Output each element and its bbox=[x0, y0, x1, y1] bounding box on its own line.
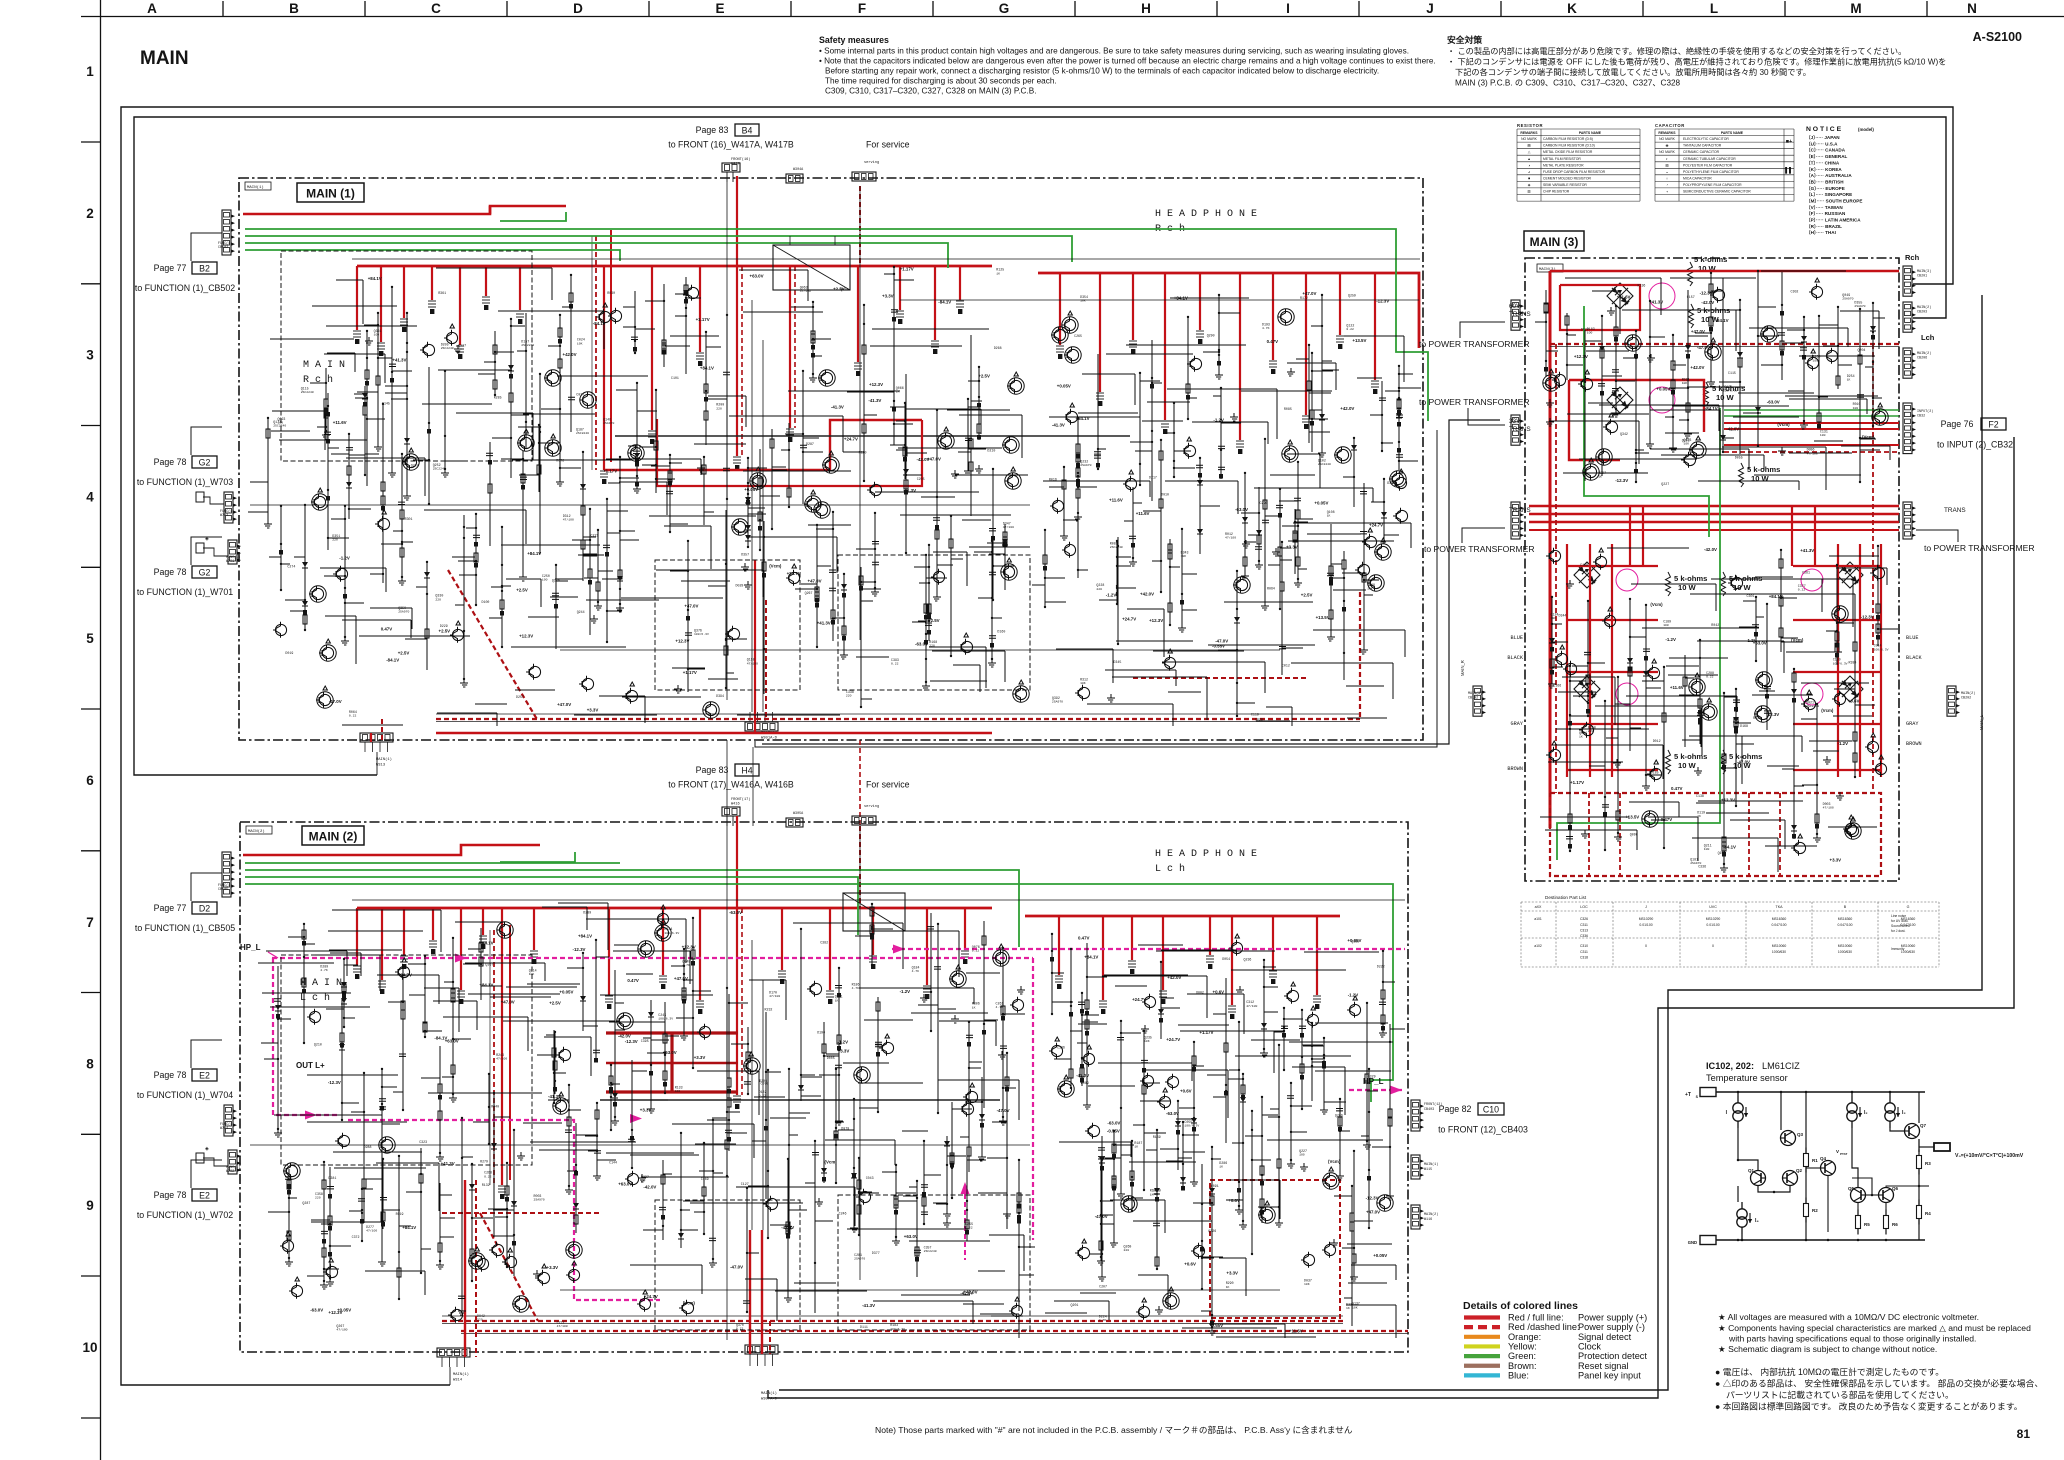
diode M1aD3 bbox=[685, 277, 687, 374]
red wires M2 right bus drops bbox=[1055, 916, 1321, 1019]
wire M3ah4 bbox=[1665, 432, 1699, 434]
svg-text:a102: a102 bbox=[1534, 944, 1542, 948]
svg-text:C138: C138 bbox=[1696, 794, 1704, 798]
wire M3bh22 bbox=[1548, 761, 1623, 763]
wire W301A-D stub bbox=[755, 430, 1437, 747]
capacitor M3bC8 bbox=[1699, 640, 1701, 744]
wire M2bh13 bbox=[1315, 1022, 1388, 1024]
green wire M2 entry jog bbox=[500, 852, 575, 862]
resistor M1b2R2 bbox=[1297, 462, 1299, 579]
svg-text:2: 2 bbox=[86, 206, 94, 221]
svg-text:to FRONT (17)_W416A, W416B: to FRONT (17)_W416A, W416B bbox=[668, 780, 794, 790]
svg-text:+11.6V: +11.6V bbox=[1136, 511, 1150, 516]
svg-text:CAPACITOR: CAPACITOR bbox=[1655, 123, 1685, 128]
red dashed interbox service bbox=[859, 740, 861, 826]
svg-text:C274: C274 bbox=[287, 564, 295, 568]
wire M2ah41 bbox=[328, 930, 423, 932]
svg-text:2SA970: 2SA970 bbox=[854, 1257, 865, 1261]
resistor M1a2R29 bbox=[863, 305, 865, 481]
svg-text:+84.1V: +84.1V bbox=[700, 365, 714, 370]
diode M2aD2 bbox=[853, 1099, 855, 1224]
resistor M2aR14 bbox=[916, 1181, 918, 1277]
svg-text:-12.3V: -12.3V bbox=[1366, 1195, 1379, 1200]
svg-text:MAIN(3): MAIN(3) bbox=[1468, 691, 1482, 696]
wire M3ah11 bbox=[1563, 472, 1648, 474]
svg-text:2SC2240: 2SC2240 bbox=[1318, 462, 1331, 466]
svg-text:Red /dashed line:: Red /dashed line: bbox=[1508, 1322, 1580, 1332]
svg-text:R2: R2 bbox=[1812, 1208, 1818, 1213]
resistor M1a2R2 bbox=[970, 335, 972, 516]
transistor M2aQ15 bbox=[326, 1266, 337, 1277]
wire temp vo link bbox=[1919, 1146, 1934, 1148]
magenta arrow up center bbox=[961, 1182, 970, 1194]
svg-text:+2.5V: +2.5V bbox=[439, 629, 451, 634]
svg-text:R019: R019 bbox=[396, 1212, 404, 1216]
transistor M3aQ14 bbox=[1606, 421, 1617, 432]
svg-text:MAIN_L: MAIN_L bbox=[1979, 714, 1984, 730]
wire M1bh22 bbox=[1162, 661, 1265, 663]
red wire M1 mid rail bbox=[604, 420, 922, 470]
wire M1bh15 bbox=[1254, 487, 1373, 489]
resistor M2aR5 bbox=[1018, 1160, 1020, 1311]
transistor M3bQ1 bbox=[1582, 724, 1593, 735]
resistor M3aR4 bbox=[1687, 290, 1689, 430]
red wire M2 tall pair b bbox=[509, 925, 511, 1180]
ground M1agnd2 bbox=[590, 615, 598, 623]
wire M2ah4 bbox=[468, 993, 560, 995]
red dashed M1 drop pair 1 bbox=[741, 266, 743, 456]
resistor M2a2R6 bbox=[424, 956, 426, 1037]
ground M2bgnd2 bbox=[1236, 986, 1244, 994]
svg-text:METAL OXIDE FILM RESISTOR: METAL OXIDE FILM RESISTOR bbox=[1543, 150, 1593, 154]
transistor M1bQ18 bbox=[1396, 510, 1407, 521]
transistor M3bQ7 bbox=[1845, 823, 1856, 834]
wire M1bh6 bbox=[1153, 650, 1244, 652]
svg-text:220: 220 bbox=[435, 597, 441, 601]
svg-text:Temperature sensor: Temperature sensor bbox=[1706, 1073, 1788, 1083]
capacitor M2bC2 bbox=[1120, 1021, 1122, 1190]
red wire M3 CB32 feed2 bbox=[1724, 428, 1899, 430]
svg-text:D377: D377 bbox=[872, 1251, 880, 1255]
transistor M2aQ11 bbox=[492, 1244, 503, 1255]
svg-text:LM61CIZ: LM61CIZ bbox=[1762, 1061, 1800, 1071]
capacitor M1aC13 bbox=[555, 565, 557, 649]
transistor M3aQ10 bbox=[1545, 377, 1556, 388]
transistor Q1 bbox=[1751, 1171, 1766, 1186]
svg-text:0.22: 0.22 bbox=[484, 1174, 492, 1178]
resistor M1bR8 bbox=[1063, 467, 1065, 532]
wire M3bh21 bbox=[1786, 651, 1842, 653]
svg-text:E: E bbox=[715, 1, 724, 16]
svg-text:-41.3V: -41.3V bbox=[862, 1303, 875, 1308]
green wire M1 g3 bbox=[245, 243, 948, 268]
transistor M1aQ27 bbox=[322, 647, 333, 658]
value labels M3b designators bbox=[1551, 563, 1889, 869]
svg-text:+84.1V: +84.1V bbox=[527, 551, 541, 556]
ground M2agnd4 bbox=[533, 1270, 541, 1278]
svg-text:D012: D012 bbox=[1653, 739, 1661, 743]
wire M3bh30 bbox=[1737, 578, 1853, 580]
svg-text:1K: 1K bbox=[1847, 378, 1851, 382]
reference to FUNCTION(1) W702 bbox=[137, 1160, 233, 1220]
svg-text:Protection detect: Protection detect bbox=[1578, 1351, 1647, 1361]
resistor M2aR7 bbox=[835, 1069, 837, 1183]
wire M3bh13 bbox=[1648, 816, 1698, 818]
capacitor M1a2C10 bbox=[687, 541, 689, 692]
svg-text:-1.2V: -1.2V bbox=[1838, 741, 1849, 746]
red dashed M2 diagonal bbox=[480, 1213, 538, 1321]
transistor M2aQ14 bbox=[282, 1240, 293, 1251]
svg-text:-0.55V: -0.55V bbox=[1210, 1323, 1223, 1328]
svg-text:CB502: CB502 bbox=[218, 246, 228, 250]
wire M3ah7 bbox=[1761, 270, 1846, 272]
svg-text:1K: 1K bbox=[972, 1005, 976, 1009]
svg-text:R042: R042 bbox=[1711, 623, 1719, 627]
wire temp out node bbox=[1918, 1168, 1920, 1206]
svg-text:+0.6V: +0.6V bbox=[1228, 1198, 1240, 1203]
wire M2ah66 bbox=[443, 1016, 528, 1018]
svg-text:1K: 1K bbox=[1346, 1306, 1350, 1310]
resistor 5k R2 bbox=[1689, 304, 1694, 328]
wire M1ah69 bbox=[664, 525, 711, 527]
svg-text:M A I N: M A I N bbox=[303, 360, 345, 371]
red wire M2 W314 feed bbox=[464, 1180, 466, 1357]
red wire M1 W417 feed bbox=[736, 176, 738, 266]
ground M1bgnd3 bbox=[1287, 368, 1295, 376]
relay circle RY5 bbox=[1616, 683, 1638, 705]
diode M2a2D6 bbox=[800, 929, 802, 1101]
red dashed M1 bottom bus bbox=[436, 721, 1360, 723]
wire stub W703 bbox=[203, 497, 224, 504]
pcb tag MAIN(2) bbox=[246, 826, 272, 834]
svg-text:R040: R040 bbox=[491, 1104, 499, 1108]
resistor M1aR16 bbox=[725, 510, 727, 688]
svg-text:+84.1V: +84.1V bbox=[402, 1225, 416, 1230]
wire M1bh32 bbox=[1049, 416, 1140, 418]
svg-text:POLYESTER FILM CAPACITOR: POLYESTER FILM CAPACITOR bbox=[1683, 163, 1733, 167]
resistor M1bR6 bbox=[1363, 483, 1365, 646]
resistor M1aR24 bbox=[936, 410, 938, 593]
wire M3bh24 bbox=[1668, 674, 1718, 676]
diode M1aD8 bbox=[747, 458, 749, 537]
wire M1b2col15 bbox=[1139, 373, 1141, 485]
svg-text:C318: C318 bbox=[1580, 955, 1588, 959]
ground M3bgnd4 bbox=[1836, 792, 1844, 800]
wire M2ah34 bbox=[770, 1117, 806, 1119]
svg-text:Q236: Q236 bbox=[1244, 957, 1252, 961]
svg-text:C101: C101 bbox=[671, 376, 679, 380]
wire M1bh35 bbox=[1208, 644, 1315, 646]
resistor M2a2R14 bbox=[703, 1143, 705, 1234]
wire stub W702 bbox=[203, 1158, 228, 1166]
terminal +Ts bbox=[1700, 1088, 1716, 1097]
transistor M1bQ7 bbox=[1280, 311, 1291, 322]
svg-text:(Vcm): (Vcm) bbox=[1821, 708, 1834, 713]
wire temp diff pair bbox=[1738, 1128, 1758, 1170]
connector FUNC(1) W701 bbox=[228, 540, 237, 564]
resistor M1aR5 bbox=[860, 567, 862, 707]
svg-text:4.7K: 4.7K bbox=[912, 969, 920, 973]
magenta wire HP_L mid drop bbox=[1032, 958, 1034, 1240]
resistor M2bR5 bbox=[1211, 1147, 1213, 1327]
value labels M2a designators bbox=[302, 911, 1003, 1332]
svg-text:Green:: Green: bbox=[1508, 1351, 1536, 1361]
svg-text:47/100: 47/100 bbox=[747, 661, 758, 665]
transistor M2aQ8 bbox=[499, 924, 510, 935]
svg-text:Q5: Q5 bbox=[1848, 1186, 1855, 1191]
svg-text:100/6.3V: 100/6.3V bbox=[890, 1327, 905, 1331]
red dashed M1 right seg bbox=[1133, 677, 1306, 679]
wire M2bh4 bbox=[1140, 1100, 1170, 1102]
wire M3ah34 bbox=[1586, 350, 1629, 352]
svg-text:TRANS: TRANS bbox=[1509, 426, 1531, 433]
reference to FRONT(12) CB403 bbox=[1438, 1103, 1528, 1135]
capacitor M2aC11 bbox=[746, 1188, 748, 1312]
svg-text:47/100: 47/100 bbox=[563, 518, 574, 522]
wire M2ah3 bbox=[270, 1006, 370, 1008]
wire M1bh24 bbox=[1087, 703, 1173, 705]
black companion M2 bottom bus bbox=[442, 1315, 1343, 1317]
wire M3bh32 bbox=[1692, 837, 1778, 839]
reference to FUNCTION(1) W703 bbox=[137, 427, 233, 487]
svg-text:W314: W314 bbox=[453, 1379, 463, 1383]
svg-text:Before starting any repair wor: Before starting any repair work, connect… bbox=[825, 67, 1379, 76]
transistor M1bQ13 bbox=[1066, 411, 1077, 422]
svg-text:Page 78: Page 78 bbox=[154, 1070, 187, 1080]
wire M2ah14 bbox=[544, 1036, 591, 1038]
wire M1ah57 bbox=[900, 514, 1011, 516]
wire M3acol2 bbox=[1635, 331, 1637, 482]
svg-text:10 W: 10 W bbox=[1678, 761, 1697, 770]
svg-text:+24.7V: +24.7V bbox=[1132, 997, 1146, 1002]
red wire M1 entry bus bbox=[243, 206, 566, 214]
ground M3bgnd1 bbox=[1694, 767, 1702, 775]
svg-text:47/100: 47/100 bbox=[1003, 525, 1014, 529]
svg-text:2SA970: 2SA970 bbox=[1854, 304, 1865, 308]
transistor M3aQ6 bbox=[1811, 286, 1822, 297]
svg-text:E2: E2 bbox=[199, 1071, 210, 1081]
transistor M1aQ7 bbox=[452, 629, 463, 640]
red dashed M2 tall pair a bbox=[493, 930, 495, 1185]
svg-text:C326: C326 bbox=[1580, 917, 1588, 921]
svg-text:■: ■ bbox=[1528, 176, 1530, 180]
transistor M2aQ37 bbox=[699, 1026, 710, 1037]
green wire M3 g1 bbox=[1584, 306, 1709, 537]
svg-text:C119: C119 bbox=[1251, 713, 1259, 717]
svg-text:2SC2240: 2SC2240 bbox=[273, 424, 286, 428]
wire M3bh43 bbox=[1540, 816, 1629, 818]
svg-text:C157: C157 bbox=[1687, 295, 1695, 299]
wire M1ah15 bbox=[729, 415, 843, 417]
resistor M2a2R15 bbox=[363, 1073, 365, 1223]
wire M1a2col13 bbox=[525, 313, 527, 449]
wire M2ah35 bbox=[329, 949, 402, 951]
svg-text:10K: 10K bbox=[1080, 681, 1086, 685]
svg-text:MS10290: MS10290 bbox=[1639, 917, 1654, 921]
resistor M1aR20 bbox=[763, 521, 765, 694]
diode M3bD6 bbox=[1793, 669, 1795, 839]
svg-text:10K: 10K bbox=[1352, 1305, 1358, 1309]
svg-text:2SA970: 2SA970 bbox=[1842, 297, 1853, 301]
svg-text:+3.3V: +3.3V bbox=[1226, 1271, 1238, 1276]
svg-text:47/100: 47/100 bbox=[800, 289, 811, 293]
svg-text:A-S2100: A-S2100 bbox=[1973, 30, 2022, 44]
resistor M3aR9 bbox=[1781, 272, 1783, 380]
resistor 5k R7 bbox=[1666, 750, 1671, 774]
transistor M1bQ22 bbox=[1190, 358, 1201, 369]
svg-text:Brown:: Brown: bbox=[1508, 1361, 1537, 1371]
resistor M3bR9 bbox=[1587, 601, 1589, 716]
svg-text:LOC: LOC bbox=[1580, 905, 1588, 909]
connector FUNC(1) W702 bbox=[228, 1150, 237, 1174]
svg-text:-1.2V: -1.2V bbox=[900, 989, 911, 994]
wire M3bh44 bbox=[1756, 593, 1855, 595]
svg-text:to POWER TRANSFORMER: to POWER TRANSFORMER bbox=[1419, 339, 1530, 349]
wire M1ah10 bbox=[327, 352, 355, 354]
capacitor M1b2C4 bbox=[1264, 439, 1266, 602]
resistor M1aR28 bbox=[832, 512, 834, 641]
wire loop D (MAIN3 right return to W307A-D) bbox=[779, 295, 1982, 1390]
wire M1ah22 bbox=[619, 481, 667, 483]
svg-text:CHIP RESISTOR: CHIP RESISTOR bbox=[1543, 190, 1570, 194]
svg-text:100/6.3V: 100/6.3V bbox=[1184, 1123, 1199, 1127]
svg-text:0.22: 0.22 bbox=[349, 714, 357, 718]
svg-text:4.7K: 4.7K bbox=[852, 986, 860, 990]
resistor M1a2R22 bbox=[703, 457, 705, 525]
transistor M3aQ8 bbox=[1692, 444, 1703, 455]
svg-text:+24.7V: +24.7V bbox=[644, 1294, 658, 1299]
wire M3ah12 bbox=[1789, 398, 1865, 400]
transistor M3bQ23 bbox=[1875, 763, 1886, 774]
svg-text:(Vcm): (Vcm) bbox=[1862, 435, 1875, 440]
transistor M2aQ21 bbox=[568, 1269, 579, 1280]
capacitor M2a2C10 bbox=[402, 966, 404, 1110]
ground M3bgnd3 bbox=[1581, 830, 1589, 838]
svg-text:+42.0V: +42.0V bbox=[1167, 975, 1181, 980]
svg-text:Rch: Rch bbox=[1905, 253, 1920, 262]
wire M2ah70 bbox=[630, 1264, 702, 1266]
diode M2a2D2 bbox=[614, 970, 616, 1117]
relay circle RY6 bbox=[1801, 683, 1823, 705]
svg-text:FUSE DROP CARBON FILM RESISTOR: FUSE DROP CARBON FILM RESISTOR bbox=[1543, 170, 1606, 174]
svg-text:R5: R5 bbox=[1864, 1222, 1870, 1227]
wire M2ah21 bbox=[333, 1151, 422, 1153]
svg-text:0.22: 0.22 bbox=[1346, 327, 1354, 331]
wire M1ah52 bbox=[270, 338, 354, 340]
wire W313 pins bbox=[364, 742, 366, 752]
red wire M1 service drop bbox=[859, 186, 861, 266]
wire M1bcol15 bbox=[1218, 295, 1220, 371]
resistor M2a2R34 bbox=[575, 1123, 577, 1233]
wire M1 top rail bbox=[352, 258, 1420, 260]
svg-text:for J dust.: for J dust. bbox=[1891, 929, 1906, 933]
wire M1bh4 bbox=[1313, 629, 1405, 631]
resistor M2a2R13 bbox=[683, 949, 685, 1032]
svg-text:+42.0V: +42.0V bbox=[1140, 591, 1154, 596]
wire M1ah45 bbox=[962, 519, 991, 521]
wire M1ah8 bbox=[271, 430, 310, 432]
svg-text:+11.6V: +11.6V bbox=[1617, 295, 1631, 300]
svg-text:MS10060: MS10060 bbox=[1772, 944, 1787, 948]
svg-text:to FUNCTION (1)_CB505: to FUNCTION (1)_CB505 bbox=[135, 923, 235, 933]
diode bridge DB1 bbox=[1607, 283, 1633, 309]
capacitor M2a2C12 bbox=[877, 997, 879, 1112]
transistor M3bQ22 bbox=[1604, 615, 1615, 626]
ground M1agnd1 bbox=[365, 337, 373, 345]
svg-text:to FRONT (16)_W417A, W417B: to FRONT (16)_W417A, W417B bbox=[668, 140, 794, 150]
svg-text:◖: ◖ bbox=[1666, 190, 1668, 194]
svg-text:下記の各コンデンサの端子間に接続して放電してください。放電所: 下記の各コンデンサの端子間に接続して放電してください。放電所用時間は各々約 30… bbox=[1455, 67, 1811, 77]
transistor M2aQ31 bbox=[515, 1298, 526, 1309]
svg-text:MAIN(2): MAIN(2) bbox=[1961, 691, 1975, 696]
svg-text:Q176: Q176 bbox=[552, 579, 560, 583]
resistor M2bR1 bbox=[1143, 1031, 1145, 1190]
svg-text:METAL PLATE RESISTOR: METAL PLATE RESISTOR bbox=[1543, 163, 1584, 167]
svg-text:Q287: Q287 bbox=[302, 1201, 310, 1205]
capacitor M3bC4 bbox=[1604, 701, 1606, 850]
svg-text:+2.5V: +2.5V bbox=[516, 588, 528, 593]
wire temp Q7 bbox=[1890, 1128, 1904, 1131]
capacitor M1a2C9 bbox=[726, 315, 728, 499]
svg-text:4.7K: 4.7K bbox=[1099, 1318, 1107, 1322]
transistor M1aQ37 bbox=[319, 694, 330, 705]
wire M2bh31 bbox=[1129, 1161, 1196, 1163]
value labels M1a2 designators bbox=[0, 0, 1, 1]
svg-text:serving: serving bbox=[864, 160, 879, 165]
board outline MAIN (2) bbox=[240, 822, 1408, 1352]
svg-text:100: 100 bbox=[1704, 847, 1710, 851]
reference to FUNCTION(1) CB502 bbox=[135, 233, 235, 293]
wire M2ah69 bbox=[794, 1282, 836, 1284]
connector MAIN(3) trans main L bbox=[1511, 502, 1520, 539]
svg-text:W307A-D: W307A-D bbox=[761, 1398, 778, 1402]
svg-text:10K: 10K bbox=[1144, 1039, 1150, 1043]
diode M1a2D3 bbox=[348, 434, 350, 519]
resistor M1aR1 bbox=[475, 514, 477, 605]
resistor M2b2R9 bbox=[1113, 1131, 1115, 1239]
resistor M1a2R6 bbox=[582, 452, 584, 581]
svg-text:Page 82: Page 82 bbox=[1439, 1104, 1472, 1114]
wire M1ah11 bbox=[438, 369, 512, 371]
svg-text:+2.5V: +2.5V bbox=[978, 373, 990, 378]
capacitor M1bC7 bbox=[1097, 354, 1099, 469]
diode M1aD9 bbox=[636, 383, 638, 485]
svg-text:For service: For service bbox=[866, 780, 910, 790]
svg-text:a101: a101 bbox=[1534, 917, 1542, 921]
svg-text:CERAMIC TUBULAR CAPACITOR: CERAMIC TUBULAR CAPACITOR bbox=[1683, 157, 1736, 161]
wire M2ah36 bbox=[963, 1303, 1004, 1305]
transistor M1aQ18 bbox=[314, 496, 325, 507]
svg-text:SEMI VARIABLE RESISTOR: SEMI VARIABLE RESISTOR bbox=[1543, 183, 1587, 187]
svg-text:7: 7 bbox=[86, 915, 94, 930]
ground M2bgnd1 bbox=[1155, 1306, 1163, 1314]
svg-text:2SC2240: 2SC2240 bbox=[441, 346, 454, 350]
svg-text:2SA970: 2SA970 bbox=[603, 421, 614, 425]
transistor M2aQ12 bbox=[338, 1135, 349, 1146]
transistor M2bQ14 bbox=[1165, 1295, 1176, 1306]
wire M3bh7 bbox=[1730, 819, 1785, 821]
wire M2bh15 bbox=[1102, 975, 1207, 977]
reference to FRONT(17) W416A W416B bbox=[668, 764, 909, 790]
wire W314 pins bbox=[441, 1357, 443, 1367]
wire M2ah42 bbox=[939, 1020, 996, 1022]
svg-text:+24.7V: +24.7V bbox=[398, 973, 412, 978]
diode M2a2D3 bbox=[341, 999, 343, 1120]
svg-text:+12.3V: +12.3V bbox=[1149, 618, 1163, 623]
diode M1a2D6 bbox=[747, 483, 749, 547]
wire M2bh2 bbox=[1289, 1041, 1393, 1043]
wire M2bh40 bbox=[1292, 1066, 1345, 1068]
